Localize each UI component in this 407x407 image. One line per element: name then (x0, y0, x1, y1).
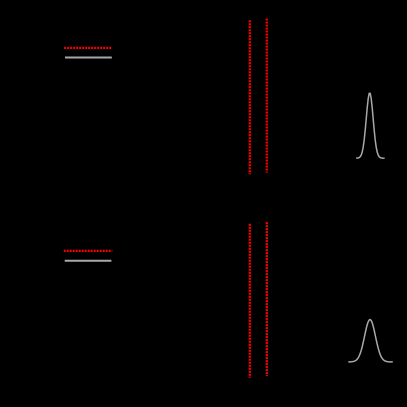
legend red dotted line (top-left panel) (64, 47, 112, 49)
legend gray solid line (top-left panel) (65, 57, 112, 59)
red dotted vertical line B (bottom-right panel) (266, 222, 268, 376)
red dotted vertical line A (top-right panel) (249, 20, 251, 174)
gray density curve (top-right panel) (356, 93, 384, 158)
red dotted vertical line A (bottom-right panel) (249, 224, 251, 378)
legend red dotted line (bottom-left panel) (64, 250, 113, 252)
legend gray solid line (bottom-left panel) (65, 260, 112, 262)
gray density curve (bottom-right panel) (348, 320, 393, 362)
red dotted vertical line B (top-right panel) (266, 19, 268, 173)
